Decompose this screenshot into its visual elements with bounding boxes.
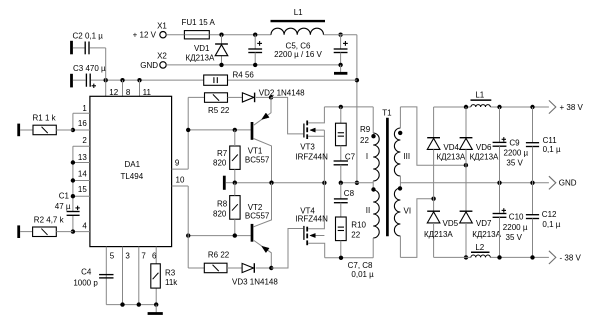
svg-text:T1: T1 bbox=[382, 108, 392, 117]
svg-text:11k: 11k bbox=[165, 278, 178, 287]
svg-text:C1: C1 bbox=[59, 191, 70, 200]
svg-text:C4: C4 bbox=[81, 267, 92, 276]
svg-text:2200 µ: 2200 µ bbox=[504, 149, 529, 158]
svg-text:R2 4,7 k: R2 4,7 k bbox=[34, 215, 65, 224]
svg-text:VT1: VT1 bbox=[248, 146, 263, 155]
svg-text:5: 5 bbox=[110, 252, 115, 261]
svg-text:R1 1 k: R1 1 k bbox=[33, 114, 57, 123]
svg-text:6: 6 bbox=[152, 252, 157, 261]
svg-text:C10: C10 bbox=[509, 212, 524, 221]
svg-text:IRFZ44N: IRFZ44N bbox=[295, 153, 328, 162]
svg-text:0,1 µ: 0,1 µ bbox=[543, 145, 561, 154]
svg-text:VD7: VD7 bbox=[476, 219, 492, 228]
svg-text:35 V: 35 V bbox=[506, 233, 523, 242]
svg-text:+ 38 V: + 38 V bbox=[560, 103, 584, 112]
svg-text:2: 2 bbox=[82, 136, 87, 145]
svg-text:16: 16 bbox=[78, 119, 87, 128]
svg-text:+ 12 V: + 12 V bbox=[133, 30, 157, 39]
svg-text:C12: C12 bbox=[542, 210, 557, 219]
svg-text:C2 0,1 µ: C2 0,1 µ bbox=[73, 32, 104, 41]
svg-text:VT3: VT3 bbox=[300, 142, 315, 151]
svg-text:820: 820 bbox=[213, 209, 227, 218]
svg-text:0,01 µ: 0,01 µ bbox=[351, 270, 374, 279]
svg-text:BC557: BC557 bbox=[245, 211, 270, 220]
svg-text:14: 14 bbox=[78, 169, 87, 178]
svg-text:L2: L2 bbox=[475, 243, 484, 252]
svg-text:R9: R9 bbox=[360, 125, 371, 134]
svg-text:10: 10 bbox=[176, 176, 185, 185]
svg-text:КД213А: КД213А bbox=[437, 153, 466, 162]
svg-text:2200 µ / 16 V: 2200 µ / 16 V bbox=[274, 50, 322, 59]
svg-text:R7: R7 bbox=[217, 149, 228, 158]
svg-text:C7: C7 bbox=[345, 152, 356, 161]
svg-text:820: 820 bbox=[213, 159, 227, 168]
svg-text:R5 22: R5 22 bbox=[208, 106, 230, 115]
svg-text:15: 15 bbox=[78, 185, 87, 194]
svg-text:1: 1 bbox=[82, 104, 87, 113]
svg-text:L1: L1 bbox=[294, 8, 303, 17]
svg-text:GND: GND bbox=[140, 61, 158, 70]
svg-text:КД213А: КД213А bbox=[470, 153, 499, 162]
svg-text:35 V: 35 V bbox=[506, 159, 523, 168]
svg-text:BC557: BC557 bbox=[245, 156, 270, 165]
svg-text:47 µ: 47 µ bbox=[55, 202, 71, 211]
svg-text:R6 22: R6 22 bbox=[208, 251, 230, 260]
svg-text:C11: C11 bbox=[543, 136, 558, 145]
svg-text:22: 22 bbox=[360, 136, 369, 145]
svg-text:II: II bbox=[366, 206, 370, 215]
svg-text:13: 13 bbox=[78, 153, 87, 162]
svg-text:DA1: DA1 bbox=[125, 160, 141, 169]
svg-text:X2: X2 bbox=[157, 51, 167, 60]
svg-text:III: III bbox=[403, 152, 410, 161]
svg-text:0,1 µ: 0,1 µ bbox=[542, 220, 560, 229]
svg-text:КД213А: КД213А bbox=[472, 230, 501, 239]
svg-text:1000 p: 1000 p bbox=[73, 278, 98, 287]
svg-text:КД213А: КД213А bbox=[424, 230, 453, 239]
svg-text:VD5: VD5 bbox=[443, 219, 459, 228]
svg-text:VD1: VD1 bbox=[194, 44, 210, 53]
svg-text:I: I bbox=[366, 152, 368, 161]
svg-text:3: 3 bbox=[125, 252, 130, 261]
svg-text:R10: R10 bbox=[351, 220, 366, 229]
svg-text:R3: R3 bbox=[165, 269, 176, 278]
svg-text:VD2 1N4148: VD2 1N4148 bbox=[259, 88, 305, 97]
svg-text:C8: C8 bbox=[344, 189, 355, 198]
svg-text:GND: GND bbox=[559, 178, 577, 187]
svg-text:11: 11 bbox=[143, 88, 152, 97]
svg-text:12: 12 bbox=[109, 88, 118, 97]
svg-text:X1: X1 bbox=[157, 21, 167, 30]
svg-text:VD4: VD4 bbox=[443, 143, 459, 152]
svg-text:IRFZ44N: IRFZ44N bbox=[295, 214, 328, 223]
svg-text:VD6: VD6 bbox=[476, 143, 492, 152]
svg-text:КД213А: КД213А bbox=[186, 54, 215, 63]
svg-text:9: 9 bbox=[175, 159, 180, 168]
svg-text:7: 7 bbox=[141, 252, 146, 261]
svg-text:VI: VI bbox=[404, 206, 412, 215]
svg-text:- 38 V: - 38 V bbox=[560, 254, 582, 263]
svg-text:VD3 1N4148: VD3 1N4148 bbox=[232, 277, 278, 286]
svg-text:4: 4 bbox=[82, 222, 87, 231]
svg-text:FU1 15 A: FU1 15 A bbox=[182, 18, 216, 27]
svg-text:C3 470 µ: C3 470 µ bbox=[73, 64, 106, 73]
svg-text:2200 µ: 2200 µ bbox=[503, 223, 528, 232]
svg-text:R8: R8 bbox=[217, 199, 228, 208]
svg-text:8: 8 bbox=[126, 88, 131, 97]
svg-text:TL494: TL494 bbox=[120, 172, 143, 181]
svg-text:R4 56: R4 56 bbox=[233, 71, 255, 80]
svg-text:L1: L1 bbox=[475, 90, 484, 99]
svg-text:C7, C8: C7, C8 bbox=[348, 261, 373, 270]
svg-text:22: 22 bbox=[351, 231, 360, 240]
svg-text:C9: C9 bbox=[509, 139, 520, 148]
